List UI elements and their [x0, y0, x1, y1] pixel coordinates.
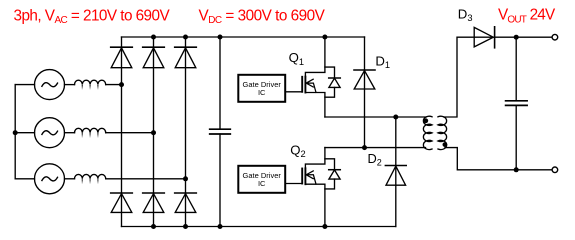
svg-text:IC: IC [258, 179, 266, 188]
diode bridge top 2 [143, 47, 165, 67]
node top bus leg3 [183, 35, 188, 40]
wire phase1 source to inductor [65, 84, 75, 86]
transformer T1 primary winding [423, 116, 432, 149]
diode bridge bottom 2 [143, 193, 165, 212]
inductor L2 [75, 128, 106, 138]
capacitor output [506, 37, 527, 170]
diode Q1 body [325, 67, 340, 97]
terminal output plus [552, 34, 558, 40]
capacitor DC link [210, 37, 231, 227]
wire top DC bus [122, 36, 365, 38]
inductor L3 [75, 174, 106, 184]
label VDC spec [199, 7, 326, 26]
diode D2 [385, 117, 406, 227]
wire bridge leg 3 [185, 37, 187, 227]
terminal output minus [552, 167, 558, 173]
wire phase2 inductor to bridge [106, 132, 154, 134]
node bottom bus cap [218, 224, 223, 229]
node bottom bus leg3 [183, 224, 188, 229]
node top bus cap [218, 35, 223, 40]
label D1 [375, 53, 390, 70]
label VAC spec [14, 8, 171, 27]
wire phase2 source to inductor [65, 132, 75, 134]
wire bridge leg 2 [153, 37, 155, 227]
node output minus junction [514, 167, 519, 172]
svg-text:Q2: Q2 [290, 142, 305, 159]
node top bus Q1 drain [322, 35, 327, 40]
node phase1-bridge junction [119, 82, 124, 87]
svg-text:D2: D2 [368, 151, 382, 168]
wire secondary bottom to output rail [445, 148, 552, 170]
wire phase1 left lead [15, 84, 34, 86]
diode bridge bottom 3 [175, 193, 197, 212]
node bottom bus Q2 source [322, 224, 327, 229]
transistor Q2 [302, 148, 325, 227]
wire bridge leg 1 [121, 37, 123, 227]
diode bridge bottom 1 [111, 193, 133, 212]
wire D3 cathode to output plus [495, 36, 552, 38]
diode bridge top 1 [111, 47, 133, 67]
wire bottom DC bus [122, 226, 396, 228]
svg-text:Q1: Q1 [289, 50, 304, 67]
svg-text:IC: IC [258, 88, 266, 97]
AC source phase 3 [35, 164, 65, 194]
wire phase3 inductor to bridge [106, 178, 186, 180]
wire phase1 inductor to bridge [106, 84, 122, 86]
diode Q2 body [325, 159, 340, 189]
label VOUT 24V [498, 7, 556, 26]
node phase2-bridge junction [151, 130, 156, 135]
node D1 anode on node B [362, 145, 367, 150]
transformer T1 secondary winding [438, 116, 447, 149]
node output plus junction [514, 35, 519, 40]
label Q2 [290, 142, 305, 159]
node bottom bus leg2 [151, 224, 156, 229]
AC source phase 2 [35, 118, 65, 148]
gate driver IC U1 [238, 75, 285, 102]
node top bus leg2 [151, 35, 156, 40]
AC source phase 1 [35, 70, 65, 100]
wire U1 to Q1 gate [285, 91, 302, 93]
transistor Q1 [302, 37, 325, 117]
label D2 [368, 151, 382, 168]
svg-text:D1: D1 [375, 53, 390, 70]
gate driver IC U2 [238, 166, 285, 193]
label D3 [458, 6, 473, 23]
label Q1 [289, 50, 304, 67]
svg-text:3ph, VAC = 210V to 690V: 3ph, VAC = 210V to 690V [14, 8, 171, 27]
transformer T1 primary polarity dot [423, 118, 428, 123]
wire left AC bus [14, 85, 16, 179]
wire node B (Q2 drain to primary bottom) [325, 147, 426, 149]
inductor L1 [75, 80, 106, 90]
node D2 cathode on node A [393, 115, 398, 120]
node phase3-bridge junction [183, 176, 188, 181]
wire phase2 left lead [15, 132, 34, 134]
diode bridge top 3 [175, 47, 197, 67]
wire node A (Q1 source to primary top) [325, 116, 426, 118]
wire U2 to Q2 gate [285, 183, 302, 185]
diode D1 [354, 37, 375, 148]
svg-text:VOUT 24V: VOUT 24V [498, 7, 556, 26]
svg-text:VDC = 300V to 690V: VDC = 300V to 690V [199, 7, 326, 26]
node left bus phase2 junction [13, 130, 18, 135]
wire secondary top to D3 [444, 37, 474, 117]
diode D3 [474, 27, 494, 48]
svg-text:D3: D3 [458, 6, 473, 23]
transformer T1 secondary polarity dot [443, 142, 448, 147]
wire phase3 source to inductor [65, 178, 75, 180]
wire phase3 left lead [15, 178, 34, 180]
